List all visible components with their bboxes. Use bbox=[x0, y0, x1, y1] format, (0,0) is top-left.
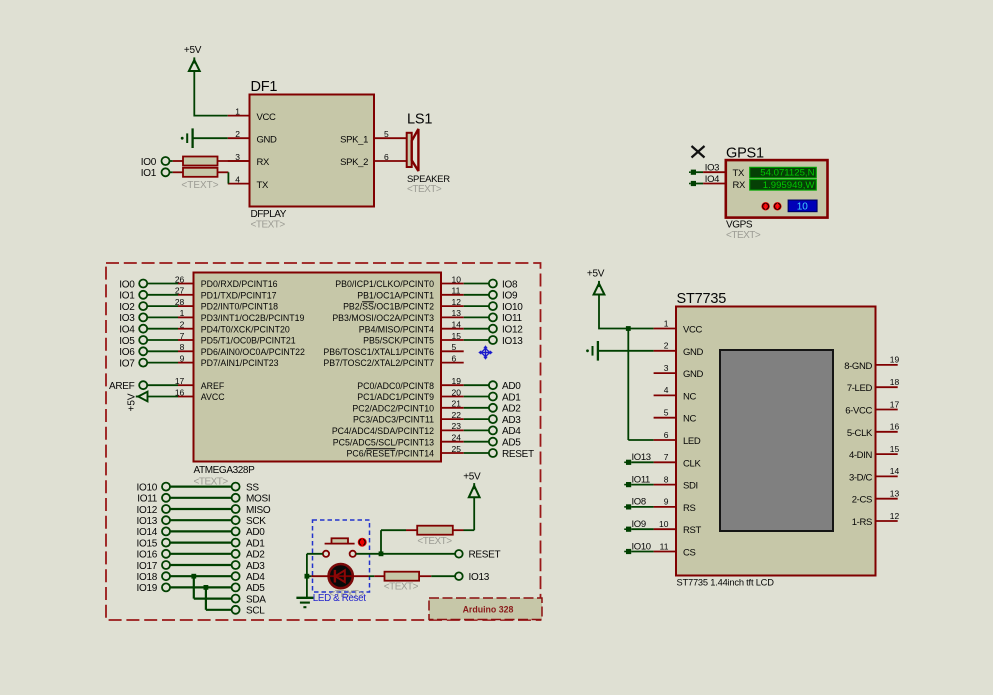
svg-text:28: 28 bbox=[175, 297, 185, 307]
svg-text:VGPS: VGPS bbox=[726, 220, 753, 231]
svg-text:SPK_1: SPK_1 bbox=[340, 134, 368, 145]
svg-text:TX: TX bbox=[257, 180, 269, 191]
svg-text:1-RS: 1-RS bbox=[852, 517, 872, 528]
svg-text:PC4/ADC4/SDA/PCINT12: PC4/ADC4/SDA/PCINT12 bbox=[332, 426, 434, 436]
svg-text:IO1: IO1 bbox=[119, 291, 135, 302]
svg-text:VCC: VCC bbox=[257, 112, 276, 123]
svg-text:RESET: RESET bbox=[469, 550, 501, 561]
svg-text:IO0: IO0 bbox=[141, 157, 157, 168]
svg-text:IO4: IO4 bbox=[119, 325, 135, 336]
svg-text:19: 19 bbox=[452, 376, 462, 386]
svg-text:RS: RS bbox=[683, 503, 696, 514]
svg-text:IO0: IO0 bbox=[119, 279, 135, 290]
svg-text:IO6: IO6 bbox=[119, 347, 135, 358]
svg-text:LED: LED bbox=[683, 436, 701, 447]
svg-text:IO10: IO10 bbox=[137, 482, 158, 493]
svg-text:PC2/ADC2/PCINT10: PC2/ADC2/PCINT10 bbox=[352, 403, 434, 413]
svg-text:RST: RST bbox=[683, 525, 701, 536]
svg-text:IO2: IO2 bbox=[119, 302, 135, 313]
svg-text:<TEXT>: <TEXT> bbox=[251, 220, 286, 231]
svg-text:GND: GND bbox=[257, 134, 278, 145]
svg-text:SS: SS bbox=[246, 482, 259, 493]
svg-text:8: 8 bbox=[180, 342, 185, 352]
svg-text:AD5: AD5 bbox=[246, 583, 265, 594]
svg-text:10: 10 bbox=[452, 274, 462, 284]
svg-text:16: 16 bbox=[175, 387, 185, 397]
svg-text:TX: TX bbox=[733, 168, 745, 179]
svg-text:1: 1 bbox=[180, 308, 185, 318]
svg-text:AD2: AD2 bbox=[246, 550, 265, 561]
svg-text:5: 5 bbox=[664, 408, 669, 418]
svg-text:7: 7 bbox=[180, 331, 185, 341]
svg-text:11: 11 bbox=[660, 541, 669, 551]
svg-text:LS1: LS1 bbox=[407, 112, 432, 128]
svg-text:AREF: AREF bbox=[201, 381, 225, 391]
svg-text:CLK: CLK bbox=[683, 458, 701, 469]
svg-text:PB6/TOSC1/XTAL1/PCINT6: PB6/TOSC1/XTAL1/PCINT6 bbox=[323, 347, 434, 357]
svg-text:PD6/AIN0/OC0A/PCINT22: PD6/AIN0/OC0A/PCINT22 bbox=[201, 347, 305, 357]
svg-text:PB4/MISO/PCINT4: PB4/MISO/PCINT4 bbox=[359, 324, 434, 334]
svg-text:MOSI: MOSI bbox=[246, 494, 270, 505]
svg-text:15: 15 bbox=[452, 331, 462, 341]
svg-text:IO14: IO14 bbox=[137, 527, 158, 538]
svg-text:5-CLK: 5-CLK bbox=[847, 428, 873, 439]
svg-text:2: 2 bbox=[180, 320, 185, 330]
svg-text:DF1: DF1 bbox=[251, 79, 278, 95]
svg-text:PD5/T1/OC0B/PCINT21: PD5/T1/OC0B/PCINT21 bbox=[201, 336, 296, 346]
svg-text:AD5: AD5 bbox=[502, 438, 521, 449]
svg-text:25: 25 bbox=[452, 444, 462, 454]
svg-text:14: 14 bbox=[890, 466, 900, 476]
svg-text:PD0/RXD/PCINT16: PD0/RXD/PCINT16 bbox=[201, 279, 278, 289]
svg-text:PC3/ADC3/PCINT11: PC3/ADC3/PCINT11 bbox=[353, 415, 434, 425]
svg-text:AVCC: AVCC bbox=[201, 392, 225, 402]
svg-text:+5V: +5V bbox=[127, 393, 138, 411]
svg-text:IO16: IO16 bbox=[137, 550, 158, 561]
svg-text:IO15: IO15 bbox=[137, 538, 158, 549]
svg-text:ST7735 1.44inch tft LCD: ST7735 1.44inch tft LCD bbox=[677, 578, 775, 588]
svg-text:IO19: IO19 bbox=[137, 583, 158, 594]
svg-text:IO7: IO7 bbox=[119, 358, 135, 369]
svg-text:AD1: AD1 bbox=[246, 538, 265, 549]
svg-text:GND: GND bbox=[683, 369, 704, 380]
svg-text:7: 7 bbox=[664, 452, 669, 462]
svg-text:IO11: IO11 bbox=[502, 313, 522, 324]
svg-text:AD0: AD0 bbox=[246, 527, 265, 538]
svg-text:1.995949,W: 1.995949,W bbox=[763, 180, 816, 191]
svg-text:27: 27 bbox=[175, 286, 185, 296]
svg-text:NC: NC bbox=[683, 414, 697, 425]
svg-text:7-LED: 7-LED bbox=[847, 383, 873, 394]
svg-text:IO3: IO3 bbox=[705, 163, 719, 174]
svg-text:2-CS: 2-CS bbox=[852, 495, 872, 506]
svg-text:2: 2 bbox=[235, 129, 240, 139]
svg-text:9: 9 bbox=[664, 497, 669, 507]
svg-text:18: 18 bbox=[890, 377, 900, 387]
svg-text:3: 3 bbox=[664, 363, 669, 373]
svg-text:24: 24 bbox=[452, 433, 462, 443]
svg-text:1: 1 bbox=[664, 318, 669, 328]
svg-text:12: 12 bbox=[452, 297, 462, 307]
svg-text:14: 14 bbox=[452, 320, 462, 330]
svg-text:IO13: IO13 bbox=[469, 572, 490, 583]
svg-text:DFPLAY: DFPLAY bbox=[251, 209, 287, 220]
svg-text:PB7/TOSC2/XTAL2/PCINT7: PB7/TOSC2/XTAL2/PCINT7 bbox=[323, 358, 434, 368]
svg-text:ATMEGA328P: ATMEGA328P bbox=[194, 465, 256, 476]
svg-text:PB2/SS/OC1B/PCINT2: PB2/SS/OC1B/PCINT2 bbox=[343, 302, 434, 312]
svg-text:6-VCC: 6-VCC bbox=[845, 406, 872, 417]
svg-text:AD4: AD4 bbox=[246, 572, 265, 583]
svg-text:SDI: SDI bbox=[683, 481, 698, 492]
svg-text:20: 20 bbox=[452, 387, 462, 397]
svg-text:23: 23 bbox=[452, 421, 462, 431]
svg-text:4: 4 bbox=[235, 174, 240, 184]
svg-text:IO8: IO8 bbox=[502, 279, 518, 290]
svg-text:AD3: AD3 bbox=[502, 415, 521, 426]
svg-text:GND: GND bbox=[683, 347, 704, 358]
svg-text:6: 6 bbox=[452, 353, 457, 363]
svg-text:IO12: IO12 bbox=[502, 325, 523, 336]
svg-text:13: 13 bbox=[452, 308, 462, 318]
svg-text:+5V: +5V bbox=[184, 45, 202, 56]
svg-text:AD0: AD0 bbox=[502, 381, 521, 392]
svg-text:RESET: RESET bbox=[502, 449, 534, 460]
svg-text:<TEXT>: <TEXT> bbox=[384, 582, 419, 593]
svg-text:8: 8 bbox=[664, 474, 669, 484]
svg-text:IO9: IO9 bbox=[502, 291, 518, 302]
svg-text:SDA: SDA bbox=[246, 594, 266, 605]
svg-text:4-DIN: 4-DIN bbox=[849, 450, 873, 461]
svg-text:AREF: AREF bbox=[109, 381, 135, 392]
svg-text:5: 5 bbox=[452, 342, 457, 352]
svg-text:PD4/T0/XCK/PCINT20: PD4/T0/XCK/PCINT20 bbox=[201, 324, 290, 334]
svg-text:PC1/ADC1/PCINT9: PC1/ADC1/PCINT9 bbox=[357, 392, 434, 402]
svg-text:26: 26 bbox=[175, 274, 185, 284]
svg-text:54.071125,N: 54.071125,N bbox=[760, 168, 814, 179]
svg-text:RX: RX bbox=[733, 180, 747, 191]
svg-text:SPK_2: SPK_2 bbox=[340, 157, 368, 168]
svg-text:PB5/SCK/PCINT5: PB5/SCK/PCINT5 bbox=[363, 336, 434, 346]
svg-text:22: 22 bbox=[452, 410, 462, 420]
svg-text:16: 16 bbox=[890, 422, 900, 432]
svg-text:IO11: IO11 bbox=[137, 494, 157, 505]
svg-text:21: 21 bbox=[452, 399, 462, 409]
svg-text:IO13: IO13 bbox=[502, 336, 523, 347]
svg-text:IO13: IO13 bbox=[137, 516, 158, 527]
svg-text:Arduino 328: Arduino 328 bbox=[463, 605, 514, 615]
svg-text:AD2: AD2 bbox=[502, 404, 521, 415]
svg-text:RX: RX bbox=[257, 157, 271, 168]
svg-text:<TEXT>: <TEXT> bbox=[417, 536, 452, 547]
svg-text:10: 10 bbox=[797, 201, 809, 212]
svg-text:PD2/INT0/PCINT18: PD2/INT0/PCINT18 bbox=[201, 302, 278, 312]
svg-text:+5V: +5V bbox=[463, 471, 481, 482]
svg-text:IO9: IO9 bbox=[632, 519, 646, 530]
svg-text:4: 4 bbox=[664, 385, 669, 395]
svg-text:IO18: IO18 bbox=[137, 572, 158, 583]
svg-text:<TEXT>: <TEXT> bbox=[407, 184, 442, 195]
svg-text:PD3/INT1/OC2B/PCINT19: PD3/INT1/OC2B/PCINT19 bbox=[201, 313, 305, 323]
svg-text:IO1: IO1 bbox=[141, 168, 157, 179]
svg-text:17: 17 bbox=[890, 399, 900, 409]
svg-text:IO5: IO5 bbox=[119, 336, 135, 347]
svg-text:MISO: MISO bbox=[246, 505, 271, 516]
svg-text:13: 13 bbox=[890, 489, 900, 499]
svg-text:NC: NC bbox=[683, 391, 697, 402]
svg-text:9: 9 bbox=[180, 353, 185, 363]
svg-text:IO17: IO17 bbox=[137, 561, 158, 572]
svg-text:SCK: SCK bbox=[246, 516, 266, 527]
svg-text:PD7/AIN1/PCINT23: PD7/AIN1/PCINT23 bbox=[201, 358, 279, 368]
svg-text:IO10: IO10 bbox=[632, 541, 651, 552]
svg-text:AD1: AD1 bbox=[502, 392, 521, 403]
svg-text:PC6/RESET/PCINT14: PC6/RESET/PCINT14 bbox=[346, 449, 434, 459]
svg-text:5: 5 bbox=[384, 129, 389, 139]
svg-text:<TEXT>: <TEXT> bbox=[726, 230, 761, 241]
svg-text:PB3/MOSI/OC2A/PCINT3: PB3/MOSI/OC2A/PCINT3 bbox=[332, 313, 434, 323]
svg-text:IO13: IO13 bbox=[632, 452, 651, 463]
svg-text:11: 11 bbox=[452, 286, 461, 296]
svg-text:ST7735: ST7735 bbox=[677, 291, 727, 307]
svg-text:IO3: IO3 bbox=[119, 313, 135, 324]
svg-text:2: 2 bbox=[664, 341, 669, 351]
svg-text:8-GND: 8-GND bbox=[844, 361, 872, 372]
svg-text:<TEXT>: <TEXT> bbox=[181, 180, 218, 191]
svg-text:IO10: IO10 bbox=[502, 302, 523, 313]
svg-text:IO4: IO4 bbox=[705, 174, 719, 185]
svg-text:PB0/ICP1/CLKO/PCINT0: PB0/ICP1/CLKO/PCINT0 bbox=[335, 279, 434, 289]
svg-text:12: 12 bbox=[890, 511, 900, 521]
svg-text:6: 6 bbox=[384, 152, 389, 162]
svg-text:PC5/ADC5/SCL/PCINT13: PC5/ADC5/SCL/PCINT13 bbox=[333, 437, 434, 447]
svg-text:AD3: AD3 bbox=[246, 561, 265, 572]
svg-text:IO8: IO8 bbox=[632, 497, 646, 508]
svg-text:PC0/ADC0/PCINT8: PC0/ADC0/PCINT8 bbox=[357, 381, 434, 391]
svg-text:15: 15 bbox=[890, 444, 900, 454]
svg-text:CS: CS bbox=[683, 548, 696, 559]
svg-text:LED & Reset: LED & Reset bbox=[313, 593, 366, 604]
svg-text:+5V: +5V bbox=[587, 269, 605, 280]
svg-text:6: 6 bbox=[664, 430, 669, 440]
svg-text:PB1/OC1A/PCINT1: PB1/OC1A/PCINT1 bbox=[357, 290, 434, 300]
svg-text:VCC: VCC bbox=[683, 325, 702, 336]
svg-text:17: 17 bbox=[175, 376, 185, 386]
svg-text:10: 10 bbox=[659, 519, 669, 529]
svg-text:IO11: IO11 bbox=[632, 474, 651, 485]
svg-text:SCL: SCL bbox=[246, 606, 265, 617]
svg-text:PD1/TXD/PCINT17: PD1/TXD/PCINT17 bbox=[201, 290, 277, 300]
svg-text:AD4: AD4 bbox=[502, 426, 521, 437]
svg-text:1: 1 bbox=[235, 106, 240, 116]
svg-text:3-D/C: 3-D/C bbox=[849, 472, 873, 483]
svg-text:19: 19 bbox=[890, 355, 900, 365]
svg-text:IO12: IO12 bbox=[137, 505, 158, 516]
